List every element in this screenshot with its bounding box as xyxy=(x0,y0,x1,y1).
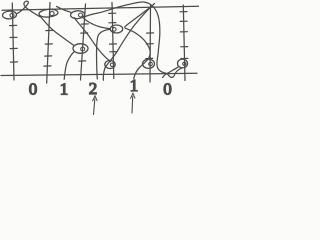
loop L1 around V1 top xyxy=(2,11,16,20)
loop L5 around V3 middle xyxy=(73,44,88,54)
strand T5b: L8 exit across bottom line xyxy=(163,67,178,77)
loop L4 around V4 xyxy=(110,25,122,33)
strand T2: L2 lower-left down to L5 xyxy=(40,16,74,45)
vertical bar V3 xyxy=(81,4,86,80)
svg-text:1: 1 xyxy=(60,80,69,99)
vertical bar V2 xyxy=(47,3,50,84)
inner spiral L2 xyxy=(50,11,54,15)
inner spiral L7 xyxy=(149,62,153,66)
strand T1: loop L1 over top line into L2 xyxy=(17,1,41,17)
loop L7 around V5 bottom xyxy=(143,59,155,68)
loop L3 around V3 top xyxy=(70,10,85,19)
svg-text:0: 0 xyxy=(163,80,172,99)
strand T8: L4 left end down across bottom line at x~97 xyxy=(97,29,111,79)
inner spiral L5 xyxy=(81,47,85,51)
ticks V1 xyxy=(10,24,17,26)
loop L2 around V2 top xyxy=(39,9,59,18)
inner spiral L4 xyxy=(113,28,117,32)
arrow 1 below segment 2 xyxy=(94,99,95,115)
bottom horizontal line xyxy=(1,73,197,75)
inner spiral L8 xyxy=(183,62,186,65)
ticks V5 xyxy=(147,32,154,34)
strand T3: L3 lower-right to L4 left xyxy=(83,18,111,29)
inner spiral L3 xyxy=(79,13,83,17)
vertical bar V6 xyxy=(183,5,185,81)
svg-text:2: 2 xyxy=(89,79,98,98)
loop L8 around V6 bottom xyxy=(178,59,188,68)
arrow 2 below segment 1 (right) xyxy=(131,97,134,114)
inner spiral L1 xyxy=(10,13,14,17)
loop L6 around V4 bottom xyxy=(105,61,115,69)
ticks V4 xyxy=(109,12,116,14)
vertical bar V4 xyxy=(112,3,114,79)
strand T6: arch2 other leg down into L6, exit across line xyxy=(103,3,154,80)
svg-text:1: 1 xyxy=(130,76,139,95)
strand T5: arch from L3 tip over top line down into L8 xyxy=(84,2,182,77)
top horizontal line xyxy=(2,6,199,10)
strand T9: from under L3 descending to L6 xyxy=(74,18,111,62)
strand T2b: L5 lower-left down across bottom line xyxy=(64,51,74,79)
svg-text:0: 0 xyxy=(29,80,38,99)
ticks V6 xyxy=(180,11,187,13)
vertical bar V1 xyxy=(12,3,14,80)
ticks V2 xyxy=(46,29,53,31)
ticks V3 xyxy=(81,23,88,25)
strand stub into L3 upper-left xyxy=(57,6,71,12)
vertical bar V5 xyxy=(149,6,152,83)
inner spiral L6 xyxy=(110,63,113,66)
strand T4: arch2 leg down past L4 tip into L7, exit across line xyxy=(125,6,153,79)
